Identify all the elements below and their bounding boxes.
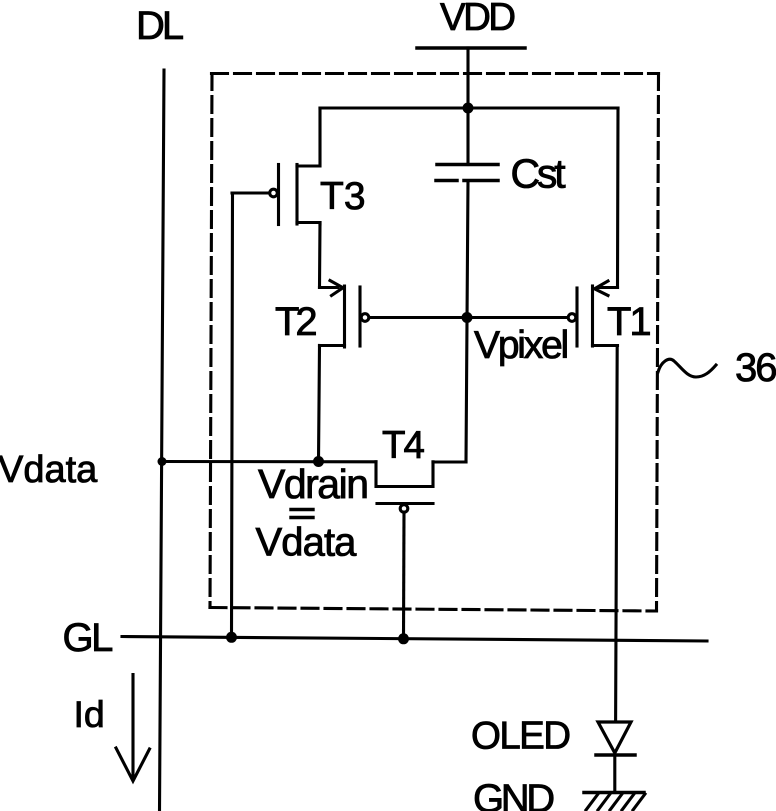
wire T1 source to OLED — [616, 346, 618, 723]
wire T4 gate down to GL — [402, 512, 406, 639]
svg-text:VDD: VDD — [440, 0, 514, 39]
svg-text:Cst: Cst — [511, 151, 567, 197]
svg-text:GL: GL — [63, 616, 113, 660]
capacitor Cst — [436, 165, 498, 181]
wire GL row — [122, 637, 707, 642]
power VDD bar — [417, 46, 525, 50]
junction VDD / top rail — [463, 103, 474, 114]
transistor T1 — [568, 281, 617, 346]
wire T2 gate to Vpixel — [370, 316, 468, 319]
junction T4 gate / GL — [398, 633, 409, 644]
junction Vdata / DL — [158, 457, 167, 466]
wire left rail down to GL — [232, 193, 233, 637]
junction T2 source / Vdata — [313, 456, 324, 467]
wire DL data line — [160, 70, 165, 811]
node Vdrain = Vdata label — [256, 461, 368, 565]
svg-text:Vpixel: Vpixel — [474, 324, 568, 367]
svg-text:T1: T1 — [607, 300, 650, 344]
svg-text:Vdrain: Vdrain — [258, 461, 368, 507]
svg-text:DL: DL — [136, 4, 183, 48]
transistor T2 — [320, 281, 369, 348]
svg-text:T4: T4 — [382, 424, 425, 467]
svg-text:36: 36 — [735, 346, 776, 390]
wire VDD stem — [466, 48, 469, 108]
svg-text:T3: T3 — [320, 175, 366, 218]
transistor T3 — [270, 108, 320, 225]
junction node Vpixel — [462, 312, 473, 323]
junction left rail / GL — [226, 632, 237, 643]
svg-text:Id: Id — [74, 693, 105, 735]
wire T3 source to T2 drain — [318, 223, 322, 288]
svg-text:Vdata: Vdata — [256, 521, 358, 565]
ground GND symbol — [584, 793, 645, 811]
wire Vpixel to T1 gate — [467, 316, 568, 319]
wire top rail — [320, 106, 618, 109]
wire top rail to T1 drain — [616, 108, 620, 288]
transistor T4 — [376, 462, 433, 513]
svg-text:T2: T2 — [275, 300, 316, 344]
svg-text:Vdata: Vdata — [0, 449, 98, 491]
pixel boundary dashed box 36 — [210, 74, 659, 612]
wire OLED to GND — [613, 755, 616, 793]
wire T2 source down to Vdata — [319, 346, 320, 462]
wire T4 drain to center column — [433, 460, 466, 463]
wire center Vpixel column — [466, 181, 468, 463]
wire T3 gate lead — [232, 191, 269, 194]
diode OLED — [596, 722, 635, 755]
svg-text:OLED: OLED — [471, 715, 569, 758]
wire Cst top lead — [466, 108, 469, 165]
svg-text:GND: GND — [473, 777, 553, 811]
callout squiggle to 36 — [658, 359, 716, 377]
wire Vdata row — [162, 460, 376, 463]
arrow Id — [116, 675, 150, 782]
